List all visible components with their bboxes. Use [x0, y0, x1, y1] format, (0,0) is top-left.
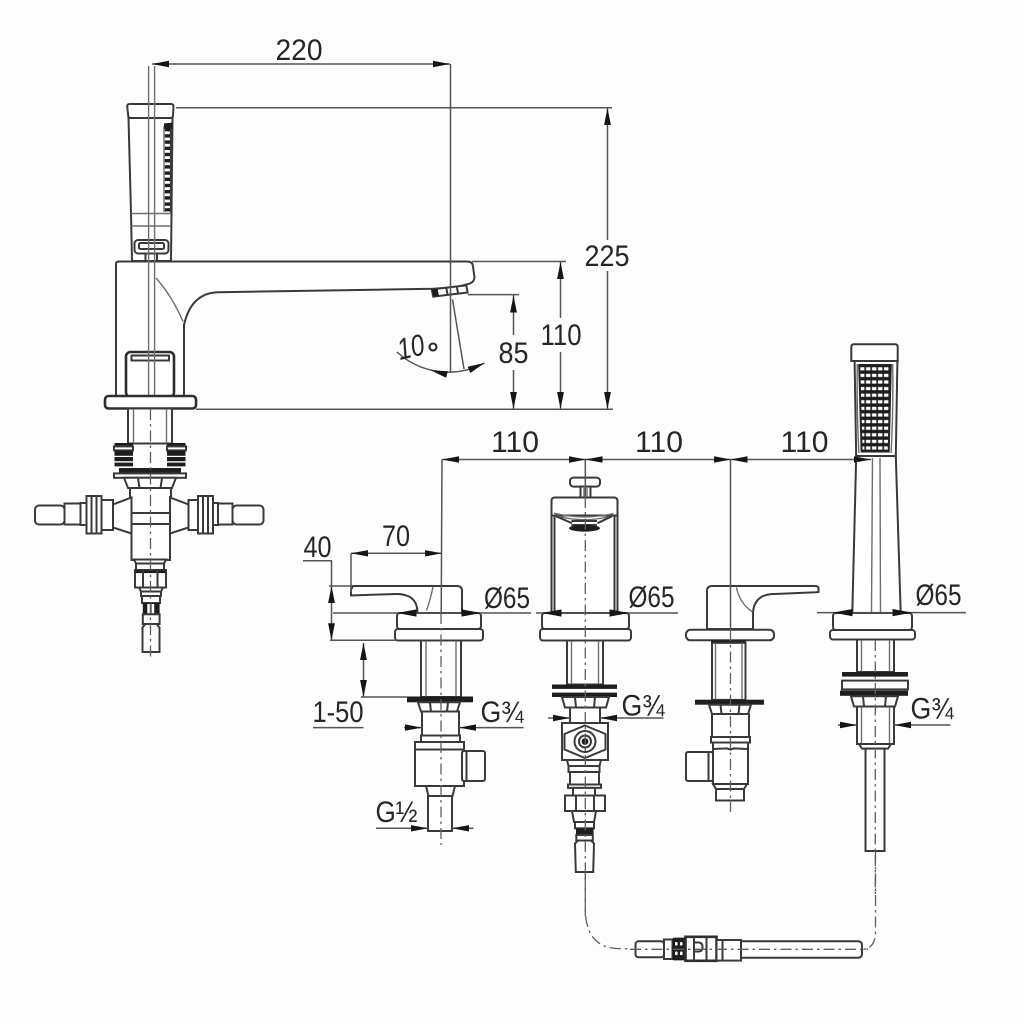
valve central body	[130, 488, 171, 514]
svg-text:110: 110	[491, 426, 539, 459]
hose routing centerline to shower post	[862, 852, 876, 950]
grip post	[852, 456, 900, 613]
dim 220 line	[152, 63, 450, 65]
collar	[664, 940, 673, 960]
bottom tube	[143, 624, 160, 652]
shower holder bracket	[135, 240, 169, 254]
left washer/nut stack rings	[114, 443, 133, 466]
washer (dark)	[842, 672, 908, 677]
centerline	[440, 613, 442, 845]
svg-text:Ø65: Ø65	[916, 579, 962, 612]
ext line right of 220 through spout	[450, 64, 452, 373]
centerline	[150, 409, 152, 660]
bottom tube G1/2	[428, 796, 452, 831]
water stream 10 deg line	[453, 300, 465, 370]
hand shower top cap	[127, 104, 173, 118]
bottom step	[426, 786, 455, 796]
top collar	[552, 498, 618, 516]
rubber washer (dark)	[407, 697, 473, 703]
ref line aerator for 85	[468, 294, 519, 296]
dim 110 vertical	[560, 262, 562, 318]
step	[859, 744, 891, 749]
spacer ring	[842, 681, 908, 690]
tail collar	[143, 614, 160, 624]
escutcheon flange upper	[542, 613, 629, 629]
bottom tube	[716, 789, 744, 801]
rubber washer (dark)	[695, 700, 764, 705]
valve body lower step	[134, 560, 166, 564]
svg-text:G¾: G¾	[481, 696, 525, 729]
long supply tube	[866, 749, 885, 851]
svg-text:Ø65: Ø65	[484, 582, 530, 615]
escutcheon flange lower	[830, 630, 915, 640]
svg-text:85: 85	[499, 337, 529, 370]
threaded shank	[421, 641, 461, 698]
dim dia65 shower post	[817, 612, 966, 614]
svg-text:225: 225	[585, 240, 630, 273]
bottom step	[713, 784, 747, 789]
head side edge line	[857, 364, 859, 453]
centerline	[730, 630, 732, 812]
knurled collar	[673, 938, 686, 961]
centerline	[584, 497, 586, 916]
hose routing centerline from diverter	[585, 873, 631, 949]
conical hose end	[636, 941, 665, 957]
svg-text:1-50: 1-50	[313, 696, 364, 729]
svg-text:110: 110	[781, 426, 829, 459]
washers (dark)	[552, 685, 617, 689]
svg-text:Ø65: Ø65	[629, 581, 675, 614]
dark plug ellipse	[569, 525, 600, 532]
escutcheon flange (single)	[686, 630, 774, 641]
valve body	[415, 742, 464, 786]
tail pieces	[572, 811, 596, 822]
locknut	[709, 705, 751, 714]
svg-text:110: 110	[635, 426, 683, 459]
washer (dark)	[840, 691, 908, 696]
base escutcheon plate	[105, 396, 196, 409]
locknut	[562, 697, 609, 708]
dim 225 line	[607, 108, 609, 240]
svg-text:70: 70	[382, 520, 410, 553]
svg-text:G¾: G¾	[911, 693, 955, 726]
reducing steps	[139, 588, 163, 592]
deck reference line	[196, 408, 613, 410]
ref line spout top for 110	[472, 261, 566, 263]
lever handle	[351, 586, 462, 613]
knob stem	[581, 487, 591, 498]
threaded shank below deck	[128, 409, 172, 444]
holder stem	[145, 254, 147, 262]
escutcheon flange lower	[395, 629, 483, 641]
svg-text:110: 110	[541, 319, 582, 352]
hand shower hidden lines (supply lines through faucet body)	[148, 66, 150, 396]
lower hex nut	[135, 570, 166, 588]
funnel cup	[554, 513, 614, 517]
lower shank	[422, 712, 459, 736]
centerline	[874, 640, 876, 897]
threaded shank	[712, 643, 746, 700]
threaded tail (dark)	[143, 603, 160, 614]
coupler	[717, 940, 742, 961]
left arm: check valve & hose tail	[102, 500, 114, 530]
spout inner blend curve	[156, 278, 183, 322]
lever handle (mirrored)	[707, 586, 819, 629]
svg-text:G½: G½	[376, 796, 418, 829]
hex valve block	[562, 723, 608, 760]
right washer/nut stack rings	[167, 443, 186, 466]
escutcheon flange upper	[833, 613, 912, 630]
shower body band lines	[131, 213, 171, 215]
shank	[857, 640, 894, 673]
svg-text:40: 40	[304, 531, 332, 564]
shower head face	[855, 361, 898, 456]
cross knob bar	[570, 478, 600, 487]
dark locking band	[119, 468, 181, 473]
hand shower in holder: tapered body	[129, 118, 173, 261]
hose hex nut	[565, 796, 605, 812]
reducing steps	[567, 760, 601, 766]
side outlet port (right)	[462, 751, 485, 781]
dim row 110/110/110 line	[442, 459, 871, 461]
ext lines for 110 row	[440, 460, 443, 614]
spray face strip (side view) with nozzle teeth	[164, 123, 173, 214]
right taper cone	[170, 498, 189, 534]
hose tube	[741, 941, 862, 958]
ref line top of shower for 225	[176, 107, 612, 109]
dim dia65 diverter	[536, 612, 678, 614]
hose nut with keyway	[686, 937, 717, 961]
hex nut	[124, 478, 176, 488]
dim dia65 left valve	[333, 612, 531, 614]
faucet front handle	[126, 352, 174, 397]
spray plate grid	[859, 365, 891, 452]
body double wall	[552, 516, 618, 614]
right arm: check valve & hose tail	[189, 500, 200, 530]
locknut	[418, 702, 460, 711]
escutcheon flange upper	[397, 613, 481, 629]
handle blend curve	[427, 587, 434, 611]
escutcheon flange lower	[540, 629, 631, 641]
threaded shank	[567, 641, 603, 685]
washer ring	[114, 473, 186, 477]
spout aerator	[432, 285, 468, 296]
head top cap	[851, 344, 897, 361]
valve body	[713, 743, 748, 785]
left taper cone	[113, 498, 132, 534]
hose centerline	[630, 948, 868, 950]
dim 70	[351, 552, 442, 554]
svg-text:220: 220	[276, 34, 323, 67]
10 deg arc	[397, 352, 485, 372]
faucet body with spout	[116, 262, 474, 397]
G3/4 stub	[857, 707, 894, 745]
svg-text:10: 10	[394, 329, 428, 367]
locknut	[851, 696, 898, 706]
dim 85	[513, 295, 515, 335]
lower shank	[712, 714, 749, 737]
dark seat line	[711, 640, 746, 643]
side outlet port (left)	[686, 752, 713, 781]
G3/4 stub	[570, 708, 600, 724]
